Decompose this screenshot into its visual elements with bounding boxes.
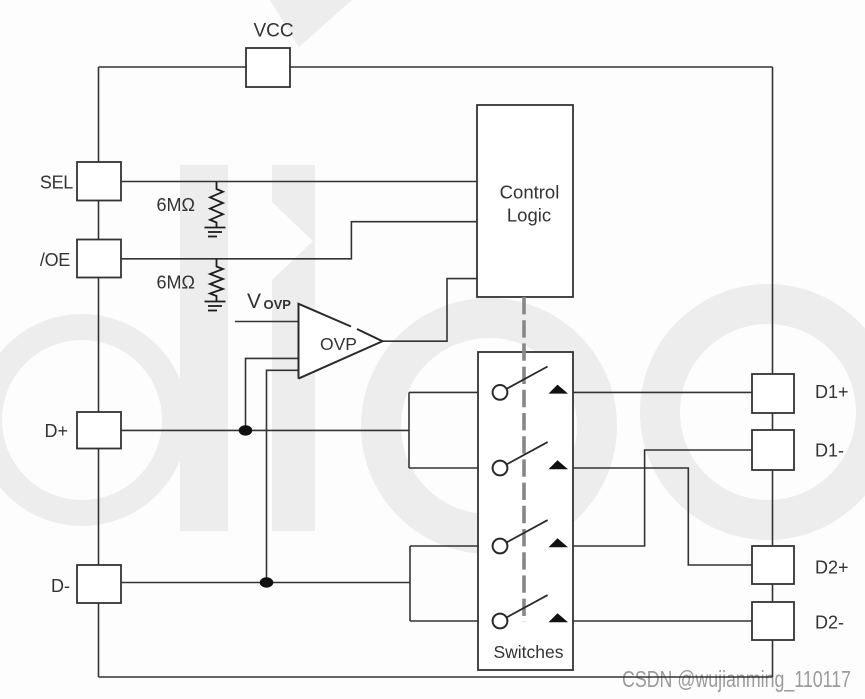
wire D- branch vertical — [409, 546, 411, 621]
op-amp OVP comparator — [299, 304, 383, 379]
svg-text:D-: D- — [51, 576, 70, 596]
wire /OE to control logic — [121, 222, 477, 259]
svg-text:6MΩ: 6MΩ — [157, 273, 195, 293]
svg-text:V: V — [247, 290, 261, 313]
switch S1 contact — [493, 385, 508, 400]
junction node D+ — [239, 425, 253, 435]
switch S2 contact — [493, 461, 508, 476]
dashed control line — [522, 297, 526, 622]
pin box D2- — [752, 602, 794, 640]
switch S2 arrow — [549, 460, 569, 469]
wire to switch 3 — [410, 545, 493, 547]
switch S2 blade — [500, 442, 548, 468]
resistor R1 6M — [210, 182, 223, 228]
svg-text:6MΩ: 6MΩ — [157, 195, 195, 215]
svg-text:SEL: SEL — [40, 173, 73, 193]
watermark letter-d ring — [0, 327, 175, 513]
wire SEL to control logic — [121, 181, 477, 183]
wire V OVP input — [235, 321, 299, 323]
wire OVP output to control logic — [383, 279, 478, 342]
wire left border — [98, 67, 100, 677]
svg-text:Logic: Logic — [507, 204, 551, 225]
wire to switch 2 — [409, 467, 493, 469]
watermark letter-d stem — [180, 165, 228, 531]
wire switch 3 to D1- — [549, 450, 752, 546]
switch S4 contact — [493, 614, 508, 629]
watermark ring o2 — [660, 304, 865, 520]
control logic box U1 — [477, 105, 573, 297]
wire switch 1 to D1+ — [549, 391, 752, 393]
svg-text:D1-: D1- — [815, 441, 844, 461]
svg-text:VCC: VCC — [253, 21, 293, 42]
svg-text:D1+: D1+ — [815, 382, 849, 402]
wire D+ to OVP input — [246, 358, 299, 430]
wire D- horizontal — [121, 582, 410, 584]
svg-text:Switches: Switches — [493, 642, 563, 662]
svg-text:OVP: OVP — [264, 297, 292, 312]
wire D+ branch vertical — [408, 392, 410, 468]
svg-text:CSDN @wujianming_110117: CSDN @wujianming_110117 — [622, 666, 851, 692]
ground for R1 — [205, 228, 226, 237]
wire D+ horizontal — [121, 429, 409, 431]
wire to switch 1 — [409, 391, 493, 393]
resistor R2 6M — [210, 259, 223, 302]
watermark ring o1 — [381, 318, 597, 534]
watermark arrow notch — [272, 202, 313, 280]
switch S3 blade — [500, 520, 548, 546]
watermark letter-i band — [272, 165, 315, 531]
ground for R2 — [205, 302, 226, 311]
switch S1 blade — [500, 367, 548, 393]
wire switch 4 to D2- — [549, 620, 752, 622]
pin box VCC — [246, 48, 290, 87]
svg-text:D2-: D2- — [815, 613, 844, 633]
svg-text:Control: Control — [500, 181, 560, 202]
switch S1 arrow — [549, 385, 569, 394]
switch S4 blade — [500, 595, 548, 621]
switches box — [478, 352, 573, 670]
pin box D- — [77, 565, 121, 603]
wire right border — [772, 67, 774, 677]
pin box D+ — [77, 412, 121, 449]
pin box D2+ — [752, 546, 794, 584]
switch S4 arrow — [549, 613, 569, 622]
svg-text:D+: D+ — [44, 421, 68, 441]
wire to switch 4 — [410, 620, 493, 622]
svg-text:/OE: /OE — [40, 250, 70, 270]
pin box D1+ — [752, 374, 794, 413]
pin box D1- — [752, 430, 794, 470]
wire D- to OVP input — [267, 370, 299, 582]
switch S3 arrow — [549, 538, 569, 547]
svg-text:D2+: D2+ — [815, 558, 849, 578]
wire top border — [99, 66, 773, 68]
wire bottom border — [99, 676, 773, 678]
svg-text:OVP: OVP — [320, 334, 357, 354]
switch S3 contact — [493, 539, 508, 554]
watermark wedge top — [270, 0, 352, 47]
junction node D- — [260, 577, 274, 587]
pin box /OE — [77, 240, 121, 278]
pin box SEL — [77, 162, 121, 201]
wire switch 2 to D2+ — [549, 468, 752, 565]
